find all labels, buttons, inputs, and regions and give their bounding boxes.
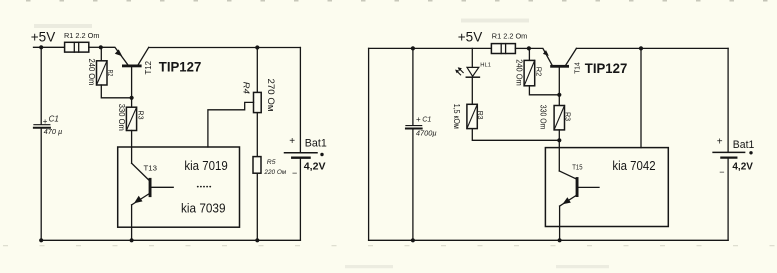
IC U1 kia 7019/7039 box [118, 147, 240, 227]
Bat1 minus (right) [719, 167, 724, 177]
wire top rail collector to battery [149, 47, 301, 49]
svg-text:HL1: HL1 [480, 62, 491, 68]
resistor R3 1,5 kOm [467, 104, 477, 128]
wire left return vertical (right circuit) [368, 48, 370, 240]
svg-text:Bat1: Bat1 [305, 138, 327, 150]
svg-text:T13: T13 [144, 163, 158, 172]
svg-text:330 Om: 330 Om [117, 104, 126, 131]
wire R1 to emitter node [89, 46, 101, 48]
ground rail (right circuit) [369, 239, 728, 241]
svg-text:470 µ: 470 µ [44, 127, 63, 136]
svg-text:+5V: +5V [458, 30, 482, 45]
ghost smudge 1 [34, 24, 92, 28]
battery Bat1 (right) wire from rail [727, 48, 729, 152]
net +5V (right) [458, 30, 482, 45]
Bat1 value 4,2V [304, 162, 326, 173]
HL1 ref label [480, 62, 491, 68]
svg-text:270 Ом: 270 Ом [266, 79, 276, 112]
Bat1 minus [292, 168, 297, 178]
TIP127 label (right) [585, 60, 628, 76]
svg-text:−: − [292, 168, 297, 178]
junction R1/R2/T14 emitter [527, 46, 531, 50]
wire left return vertical (top to C1) [40, 47, 42, 124]
svg-text:−: − [719, 167, 724, 177]
svg-text:kia 7019: kia 7019 [184, 158, 227, 173]
wire R1 to emitter node (right) [515, 47, 529, 49]
svg-text:TIP127: TIP127 [585, 60, 628, 76]
wire T15 emitter to ground rail [559, 206, 561, 240]
resistor R5 220 Om [253, 157, 261, 174]
resistor R3 330 Om (left) [126, 107, 136, 130]
transistor T14 TIP127 (PNP) [529, 48, 577, 67]
U1 label kia 7019 [184, 158, 227, 173]
R3 value 1,5 kOm [452, 104, 461, 129]
capacitor C1 470u [34, 125, 50, 128]
wire rail to R4 [256, 48, 258, 93]
svg-text:R3: R3 [476, 111, 485, 120]
wire T14 base down [558, 68, 560, 95]
junction R5/ground rail [255, 238, 259, 242]
C1 ref label [49, 115, 59, 124]
faint page dashes top [0, 0, 777, 2]
wire top rail collector to battery (right) [576, 47, 728, 49]
svg-text:+: + [43, 117, 48, 126]
svg-text:R1 2.2 Om: R1 2.2 Om [64, 31, 100, 40]
wire junction to R2 top [100, 47, 102, 61]
resistor R4 270 Om [254, 92, 262, 112]
svg-text:R4: R4 [242, 82, 252, 94]
svg-text:R3: R3 [137, 111, 146, 120]
svg-text:4,2V: 4,2V [732, 162, 753, 173]
svg-text:C1: C1 [422, 115, 431, 124]
transistor T12 TIP127 (PNP) [101, 47, 149, 67]
wire rail to LED anode [471, 48, 473, 67]
svg-text:T12: T12 [144, 60, 153, 74]
transistor T13 (inside U1) [132, 163, 174, 205]
wire junction to R2 (right) [528, 48, 530, 60]
wire R2 bottom to base junction [101, 85, 131, 98]
svg-text:kia 7042: kia 7042 [612, 158, 655, 173]
C1 plus (right) [416, 115, 421, 124]
svg-text:R2: R2 [535, 67, 544, 77]
C1 value 470u [44, 127, 63, 136]
R3 330 value label [539, 105, 548, 130]
ghost smudge 2 [461, 19, 529, 23]
junction C1/ground (right) [411, 238, 415, 242]
svg-text:R1 2.2 Om: R1 2.2 Om [492, 31, 528, 40]
Bat1 dot mark [320, 153, 323, 156]
wire +5V to R1 [34, 46, 65, 48]
resistor R1 2.2 Om (left) [65, 42, 89, 52]
ghost smudge 3 [345, 265, 393, 268]
ghost smudge 4 [556, 265, 609, 268]
wire R4 tap to U1 pin [208, 102, 254, 147]
resistor R2 240 Om (right) [524, 60, 535, 85]
wire battery minus to ground (right) [727, 159, 729, 241]
wire LED cathode to R3 (1,5 kOm) [471, 77, 473, 104]
junction base/R2/R3 [130, 96, 134, 100]
resistor R2 240 Om (left) [97, 61, 108, 85]
wire R3 bottom to base node [472, 129, 559, 141]
T12 ref label [144, 60, 153, 74]
wire C1 to ground rail [40, 128, 42, 240]
TIP127 label (left) [159, 58, 202, 74]
resistor R3 330 Om (right) [554, 106, 564, 130]
svg-text:330 Om: 330 Om [539, 105, 548, 130]
junction top rail / R4 [255, 45, 259, 49]
svg-text:kia 7039: kia 7039 [181, 201, 226, 216]
Bat1 ref label (right) [733, 139, 755, 151]
wire T13 emitter to ground rail [131, 205, 133, 240]
ground rail (left circuit) [41, 239, 300, 241]
svg-text:+: + [416, 115, 421, 124]
C1 ref label (right) [422, 115, 431, 124]
R2 ref label [106, 70, 115, 76]
R2 value 240 Om [87, 59, 96, 86]
svg-text:R2: R2 [106, 70, 115, 76]
Bat1 value 4,2V (right) [732, 162, 753, 173]
faint page dashes bottom [0, 245, 777, 247]
battery Bat1 4,2V (right) [713, 152, 745, 157]
svg-text:220 Ом: 220 Ом [263, 169, 286, 176]
junction emitter/ground rail [130, 238, 134, 242]
svg-text:4,2V: 4,2V [304, 162, 326, 173]
R3 330 ref label [563, 112, 572, 121]
R5 ref label [267, 159, 276, 166]
R1 label (right) [492, 31, 528, 40]
Bat1 ref label [305, 138, 327, 150]
U2 label kia 7042 [612, 158, 655, 173]
battery Bat1 4,2V (left) [285, 153, 318, 158]
junction top rail / C1 (right) [411, 46, 415, 50]
junction C1/ground rail [39, 238, 43, 242]
svg-text:+5V: +5V [31, 29, 55, 44]
T13 ref label [144, 163, 158, 172]
wire C1 to ground rail (right) [412, 129, 414, 240]
C1 value 4700u [416, 129, 437, 138]
Bat1 plus (right) [717, 137, 723, 148]
R5 value 220 Om [263, 169, 286, 176]
svg-text:240 Om: 240 Om [515, 59, 524, 86]
junction R1/R2/T12 emitter [99, 45, 103, 49]
Bat1 dot mark (right) [749, 151, 752, 154]
wire R3 to T15 collector (enters IC box) [558, 130, 560, 171]
svg-text:T14: T14 [574, 62, 581, 74]
svg-text:+: + [289, 136, 295, 147]
R1 label [64, 31, 100, 40]
junction +5V / C1 branch [39, 45, 43, 49]
U1 label dots [197, 186, 211, 188]
LED HL1 [455, 67, 479, 77]
wire junction to C1 (right) [412, 48, 414, 125]
wire junction to R3 [131, 98, 133, 107]
junction base/R2/R3 (right) [557, 93, 561, 97]
R3 ref label (led resistor) [476, 111, 485, 120]
wire battery minus to ground rail [299, 159, 301, 240]
wire junction to R3 330 (right) [558, 95, 560, 106]
svg-text:TIP127: TIP127 [159, 58, 202, 74]
svg-text:R5: R5 [267, 159, 276, 166]
Bat1 plus [289, 136, 295, 147]
wire R5 to ground rail [256, 173, 258, 240]
net +5V (left) [31, 29, 55, 44]
svg-text:R3: R3 [563, 112, 572, 121]
T15 ref label [572, 162, 582, 171]
svg-text:T15: T15 [572, 162, 582, 171]
transistor T15 (inside U2) [559, 171, 599, 206]
wire R4 to R5 [256, 113, 258, 157]
R4 ref label [242, 82, 252, 94]
R3 value 330 Om [117, 104, 126, 131]
junction top rail / U2 pin [639, 46, 643, 50]
battery Bat1 (left) wire from top rail [299, 48, 301, 153]
junction emitter/ground (right) [558, 238, 562, 242]
C1 plus sign [43, 117, 48, 126]
junction R3 wire / T15 collector wire [557, 138, 561, 142]
R2 ref label (right) [535, 67, 544, 77]
wire top rail to R1 (right) [369, 47, 492, 49]
R2 value 240 Om (right) [515, 59, 524, 86]
wire U2 pin stub [640, 48, 642, 147]
capacitor C1 4700u (right) [406, 126, 422, 129]
R3 ref label [137, 111, 146, 120]
U1 label kia 7039 [181, 201, 226, 216]
wire T12 base down [131, 67, 133, 97]
wire R3 to T13 collector (enters IC box) [131, 131, 133, 164]
svg-text:Bat1: Bat1 [733, 139, 755, 151]
R4 value 270 Om [266, 79, 276, 112]
T14 ref label [574, 62, 581, 74]
resistor R1 2.2 Om (right) [491, 44, 515, 54]
svg-text:C1: C1 [49, 115, 59, 124]
wire R2 bottom to base junction (right) [529, 86, 559, 95]
svg-text:240 Om: 240 Om [87, 59, 96, 86]
svg-text:1,5 кОм: 1,5 кОм [452, 104, 461, 129]
IC U2 kia 7042 box [545, 148, 668, 227]
svg-text:4700µ: 4700µ [416, 129, 437, 138]
svg-text:+: + [717, 137, 723, 148]
